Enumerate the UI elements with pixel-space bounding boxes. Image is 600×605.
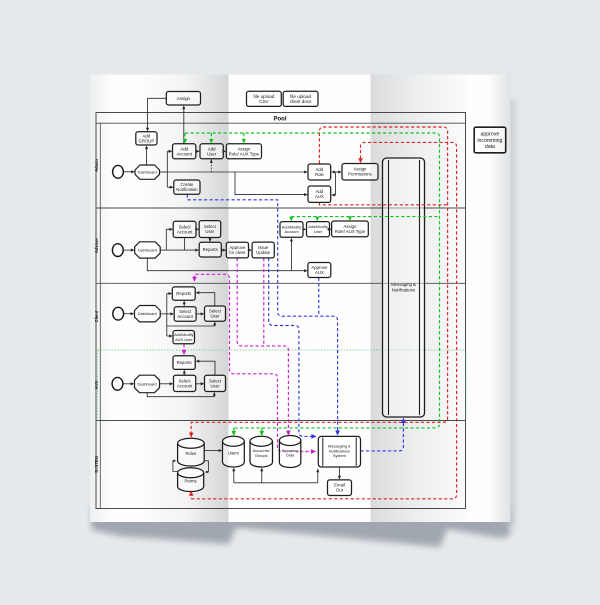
task box Assign (top) (166, 92, 200, 106)
task Select Account (advisor) (173, 221, 196, 237)
wire branch vertical client (167, 294, 171, 337)
magenta wire Approve for client to Reporting Data (237, 258, 288, 433)
paper fold band 1 (138, 75, 229, 523)
lane line Admin/Advisor (96, 207, 466, 209)
svg-text:Role: Role (315, 172, 324, 177)
start event Client (113, 307, 124, 320)
task Dashboard Admin (135, 165, 160, 179)
red arrow into Roles top (189, 433, 194, 438)
green wire drop to Add User (210, 133, 212, 141)
arrow into Messaging System bottom-left (316, 468, 319, 472)
start event Advisor (112, 244, 123, 257)
task Select Account (aux) (174, 375, 196, 391)
arrow into Assign bottom (182, 105, 185, 109)
wire branch up to Select Account advisor (166, 229, 170, 250)
wire Dashboard to Select Account aux (160, 383, 171, 385)
task box file upload client docs (283, 91, 318, 106)
magenta arrow into AUX Reports top (182, 350, 187, 355)
wire Add Account to Add User (196, 150, 198, 152)
svg-text:Dashboard: Dashboard (138, 247, 157, 252)
arrow into Reports bottom client (183, 300, 186, 304)
wire Dashboard bottom to Select User aux (147, 393, 214, 397)
svg-text:file upload: file upload (253, 94, 274, 99)
task Issue Update (252, 242, 274, 258)
arrow into Select Account left advisor (169, 228, 173, 231)
arrow into Add User left (196, 150, 200, 153)
svg-text:User: User (210, 314, 220, 319)
svg-text:AUX: AUX (315, 194, 324, 199)
wire Select User to Reports right client (198, 293, 215, 306)
blue wire Issue Update to Messaging System left (269, 258, 314, 436)
green wire drop to Accounts db (261, 428, 263, 433)
task Reports (client) (172, 287, 195, 300)
task box file upload CSV (247, 91, 282, 106)
paper fold shading left edge (90, 75, 114, 523)
wire Assign to Add GROUP (148, 98, 167, 129)
arrow into Add AUX left (304, 193, 308, 196)
green wire drop to Add/Modify Account (290, 217, 292, 220)
wire Assign Permissions to Add AUX (333, 173, 335, 195)
svg-text:Role/ AUX Type: Role/ AUX Type (229, 151, 260, 156)
datastore Roles (178, 438, 205, 466)
arrow into Users bottom (232, 467, 235, 471)
wire Reports to Approve for client (221, 249, 223, 251)
green arrow into Add User top (209, 139, 213, 144)
wire Admin start to Dashboard (123, 171, 132, 173)
green arrow into Assign Role top (242, 139, 246, 144)
task Add/Modify AUX User (client) (173, 331, 195, 344)
svg-text:User: User (210, 383, 220, 388)
red arrow into Perms bottom (189, 491, 194, 496)
svg-text:Perms: Perms (185, 479, 197, 484)
svg-text:Account: Account (177, 383, 193, 388)
svg-text:Account: Account (176, 151, 192, 156)
wire branch up to Add/Modify Account (290, 240, 292, 271)
wire branch to Add AUX (235, 172, 305, 195)
arrow into Add/Modify Account bottom (290, 238, 293, 242)
svg-text:Account: Account (284, 229, 299, 234)
wire Add Account to Assign (183, 108, 185, 144)
wire Add User to Assign Role (222, 150, 225, 152)
arrow into Accounts bottom (260, 467, 263, 471)
wire Roles to Perms loop right (204, 461, 208, 472)
arrow into Reports top advisor (208, 238, 211, 242)
svg-text:file upload: file upload (290, 94, 311, 99)
svg-text:User: User (314, 229, 323, 234)
wire Add Role to Assign Permissions (333, 171, 339, 173)
arrow into Select Account left client (170, 312, 174, 315)
lane label divider (99, 123, 101, 508)
wire Select Account to Select User client (196, 313, 202, 315)
wire AUX start to Dashboard (123, 383, 132, 385)
task Approve AUX (308, 263, 331, 278)
datastore Reporting Data (279, 436, 300, 468)
task Reports (advisor) (199, 242, 221, 257)
svg-text:Dashboard: Dashboard (138, 311, 157, 316)
AUX lane green dotted left (97, 350, 99, 421)
lane line Advisor/Client (96, 282, 466, 284)
lane line AUX/SYSTEM (96, 420, 466, 422)
pool outer frame (96, 113, 466, 509)
svg-text:data: data (485, 144, 495, 150)
datastore Users (223, 436, 245, 467)
arrow into Dashboard Admin (131, 170, 135, 173)
red arrow into Assign Permissions top (358, 158, 363, 163)
paper bottom shadow (92, 505, 510, 547)
arrow into Select User bottom client (213, 321, 216, 325)
arrow into Approve AUX left (304, 269, 308, 272)
magenta wire AUX User to AUX Reports (183, 344, 185, 352)
start event Admin (113, 165, 124, 178)
arrow into Create Notification left (170, 186, 174, 189)
svg-text:Permissions: Permissions (348, 172, 371, 177)
svg-text:Messaging &: Messaging & (391, 282, 416, 287)
wire Select Account bottom join advisor (184, 238, 186, 251)
wire Dashboard to Add GROUP (146, 148, 148, 165)
svg-text:Account: Account (177, 314, 193, 319)
svg-text:Reports: Reports (177, 360, 192, 365)
wire Select User to Reports top advisor (209, 238, 211, 240)
wire Approve for client to Issue Update (249, 249, 250, 251)
blue wire Messaging System to tall box (361, 420, 404, 451)
magenta arrow into Messaging System left (311, 449, 316, 454)
arrow into Assign Permissions left (338, 170, 342, 173)
task Assign Role/AUX Type (advisor) (332, 221, 369, 237)
arrow into Add GROUP top (146, 128, 149, 132)
wire Select Account to Reports aux (183, 372, 185, 375)
arrow into Roles lower-left (173, 460, 176, 463)
svg-text:approve: approve (481, 131, 500, 137)
arrow into Select User left advisor (195, 228, 199, 231)
wire Select Account to Select User aux (196, 383, 202, 385)
arrow into Email Out top (338, 476, 341, 480)
paper fold band 2 (371, 75, 468, 523)
svg-text:Client: Client (94, 310, 99, 322)
wire middle branch to Select User bottom client (167, 324, 215, 326)
task Email Out (328, 480, 352, 496)
arrow into Add Account left (169, 150, 173, 153)
arrow into Select Account left aux (170, 382, 174, 385)
green wire main admin horizontal to tall box (185, 133, 440, 428)
green arrow into Assign Role advisor top (348, 216, 352, 221)
green wire drop to Assign Role advisor (349, 217, 351, 219)
magenta wire client Reports to Messaging System (195, 274, 314, 451)
green wire drop to Add Account (184, 133, 186, 141)
red wire Perms loop to Assign Permissions (191, 142, 456, 498)
arrow into Reports left advisor (195, 249, 199, 252)
tall box Messaging & Notifications (383, 158, 425, 417)
arrow into Approve for client left (222, 249, 226, 252)
red wire Add AUX join (319, 203, 447, 205)
svg-text:Account: Account (177, 229, 193, 234)
svg-text:System: System (333, 453, 346, 458)
green arrow into Accounts top (260, 431, 265, 436)
wire dashed Add User association (210, 162, 212, 173)
arrow into Add Role left (304, 170, 308, 173)
svg-text:User: User (205, 229, 215, 234)
svg-text:CSV: CSV (259, 99, 269, 104)
task Add User (200, 144, 223, 159)
arrow into Reports right client (195, 291, 199, 294)
arrow into Add GROUP bottom (145, 145, 148, 149)
task Approve for client (226, 242, 248, 258)
paper right edge shading (488, 75, 511, 523)
svg-text:for client: for client (229, 250, 246, 255)
wire Advisor start to Dashboard (123, 249, 132, 251)
svg-text:Assign: Assign (177, 96, 191, 101)
paper sheet (90, 75, 511, 523)
task Create Notification (174, 180, 200, 194)
wire db risers to Messaging System (234, 470, 318, 483)
svg-text:Dashboard: Dashboard (137, 381, 156, 386)
arrow into Dashboard Advisor (131, 249, 135, 252)
svg-text:Data: Data (286, 453, 295, 458)
arrow into Reports bottom aux (183, 370, 186, 374)
magenta arrow into Reporting Data top (286, 431, 291, 436)
task box approve incomming data (474, 127, 506, 153)
svg-text:SYSTEM: SYSTEM (94, 455, 99, 472)
blue arrow into tall box bottom (401, 418, 406, 423)
green wire drop to Assign Role admin (243, 133, 245, 141)
svg-text:User: User (207, 151, 217, 156)
wire Dashboard to Reports advisor (160, 249, 196, 251)
svg-text:Roles: Roles (186, 451, 197, 456)
AUX lane green dotted right (465, 350, 467, 421)
green wire advisor horizontal (291, 216, 439, 218)
task Dashboard AUX (135, 375, 160, 393)
arrow into Perms right (205, 471, 208, 474)
svg-text:Update: Update (256, 250, 270, 255)
red wire Add Role loop to Roles db (191, 127, 447, 435)
task Dashboard Advisor (135, 242, 161, 258)
magenta arrow into client Reports lane (192, 277, 197, 282)
paper right shadow (505, 100, 516, 525)
task Add Account (173, 144, 196, 159)
svg-text:Admin: Admin (94, 159, 99, 172)
task Add Role (308, 164, 331, 180)
pool header line (96, 122, 466, 124)
svg-text:Notifications: Notifications (392, 287, 415, 292)
task Add/Modify User (advisor) (307, 222, 330, 237)
task Assign Role/AUX Type (admin) (226, 144, 261, 159)
datastore Perms (178, 468, 204, 492)
wire Roles to Users (204, 450, 220, 452)
arrow into Assign Role advisor left (328, 228, 332, 231)
arrow into Dashboard Client (131, 312, 135, 315)
AUX lane green dotted top (98, 349, 466, 351)
svg-text:Notification: Notification (176, 187, 198, 192)
arrow into Assign Role left (222, 150, 226, 153)
svg-text:Reports: Reports (176, 291, 191, 296)
svg-text:client docs: client docs (290, 99, 312, 104)
svg-text:AUX User: AUX User (175, 337, 193, 342)
blue arrow into Messaging System left top (311, 434, 316, 439)
task Select User (advisor) (199, 221, 221, 238)
wire Dashboard to Add Role (160, 171, 306, 173)
task Add/Modify Account (advisor) (280, 222, 303, 238)
start event AUX (112, 377, 123, 390)
arrow into Add AUX right (331, 193, 335, 196)
blue wire Approve AUX join (318, 278, 320, 317)
green arrow into Users top (232, 431, 237, 436)
magenta wire Issue Update join (263, 258, 265, 346)
arrow into Select User bottom aux (213, 392, 216, 396)
arrow into Add Role right (331, 170, 335, 173)
svg-text:Reports: Reports (203, 247, 218, 252)
svg-text:Pool: Pool (274, 117, 287, 123)
arrow into Issue Update left (248, 249, 252, 252)
wire Add/Modify Account to Add/Modify User (302, 228, 305, 230)
arrow into Reports right aux (195, 360, 199, 363)
task Assign Permissions (342, 164, 378, 181)
blue arrow into Messaging System top (335, 430, 340, 435)
wire Select User to Reports right aux (198, 361, 215, 375)
svg-text:Advisor: Advisor (94, 237, 99, 253)
arrow into Reports left client (168, 292, 172, 295)
green arrow into Add/Modify Account top (289, 217, 293, 222)
svg-text:Out: Out (336, 488, 344, 493)
arrow into Select User left client (201, 312, 205, 315)
arrow into Users left (219, 449, 223, 452)
task Select User (aux) (205, 375, 226, 391)
wire Select Account to Select User advisor (195, 228, 198, 230)
arrow into Select User left aux (201, 382, 205, 385)
wire Add/Modify User to Assign Role advisor (329, 228, 331, 230)
arrow into Add User bottom (210, 159, 213, 163)
wire Dashboard branch to Add Account and Create Notification (160, 151, 172, 187)
svg-text:AUX: AUX (315, 270, 324, 275)
wire Dashboard to Select Account client (160, 313, 171, 315)
green wire drop to Add/Modify User (316, 217, 318, 220)
blue wire Create Notification to Messaging System top (187, 195, 337, 433)
wire Perms to Roles loop left (173, 461, 178, 472)
svg-text:Users: Users (228, 451, 239, 456)
svg-text:incomming: incomming (477, 138, 502, 144)
svg-text:AUX: AUX (94, 380, 99, 389)
task Messaging & Notifications System (318, 436, 360, 467)
paper bottom contact shadow (92, 517, 510, 525)
green wire drop to Users db (233, 428, 235, 433)
task Select User (client) (205, 306, 226, 321)
arrow into Add/Modify User left (303, 228, 307, 231)
green arrow into Add Account top (183, 139, 187, 144)
task Add GROUP (136, 132, 157, 145)
wire Messaging System to Email Out (338, 467, 340, 477)
arrow into Dashboard AUX (131, 382, 135, 385)
task Reports (aux) (173, 356, 195, 370)
wire Client start to Dashboard (124, 313, 132, 315)
svg-text:GROUP: GROUP (139, 138, 155, 143)
wire Select Account to Reports client (183, 303, 185, 307)
task Dashboard Client (135, 306, 161, 322)
wire Dashboard bottom to Approve AUX (147, 258, 305, 271)
svg-text:Groups: Groups (255, 453, 268, 458)
arrow into AUX User left client (169, 334, 173, 337)
svg-text:Dashboard: Dashboard (138, 169, 157, 174)
datastore Accounts/Groups (250, 436, 273, 467)
task Select Account (client) (174, 307, 196, 322)
green arrow into Add/Modify User top (315, 217, 319, 222)
task Add AUX (308, 186, 331, 202)
svg-text:Role/ AUX Type: Role/ AUX Type (335, 229, 366, 234)
